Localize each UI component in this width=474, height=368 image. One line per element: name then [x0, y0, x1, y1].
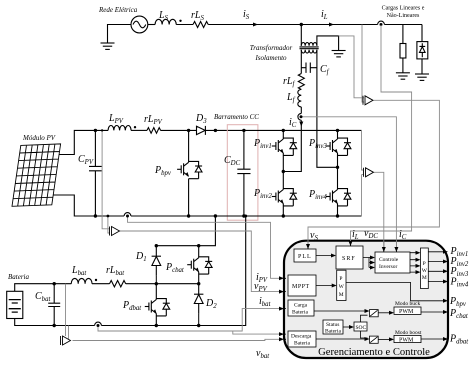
svg-text:Não-Lineares: Não-Lineares: [387, 13, 420, 19]
converter top wire: [156, 216, 215, 246]
wire vS to PLL: [307, 241, 309, 249]
wire vDC tap bottom: [362, 175, 364, 216]
transistor P_inv3: [326, 138, 351, 155]
svg-text:Rede Elétrica: Rede Elétrica: [98, 6, 138, 14]
arrows into mppt/carga/descarga from block edge: [284, 278, 286, 339]
wire selector to pwm buck: [378, 312, 392, 314]
box Status Bateria: [323, 320, 343, 334]
transformer primary: [301, 43, 317, 46]
node P_bpv top: [187, 129, 190, 132]
wire vS tap1: [339, 36, 364, 98]
wire status to SOC: [343, 326, 352, 328]
node Pcbat bottom: [197, 282, 200, 285]
box Descarga Bateria: [288, 331, 316, 347]
box PWM boost: [394, 335, 421, 342]
highlight rect barramento: [227, 125, 258, 221]
wire rLbat to converter: [126, 283, 199, 285]
transistor P_inv1: [272, 138, 297, 155]
svg-text:Bateria: Bateria: [8, 273, 29, 281]
wire vS tap2: [362, 25, 364, 103]
svg-text:Barramento CC: Barramento CC: [214, 113, 259, 121]
wires PWM to Pinv outputs: [428, 252, 446, 282]
transistor P_cbat: [198, 246, 200, 284]
svg-text:Carga: Carga: [294, 303, 308, 309]
wire vPV tap1: [102, 130, 110, 228]
sensor triangle vDC: [364, 168, 374, 177]
secondary right branch: [317, 50, 338, 168]
secondary left branch: [300, 50, 302, 74]
svg-text:Modo boost: Modo boost: [395, 330, 422, 336]
svg-text:Descarga: Descarga: [291, 334, 312, 340]
diode D3: [197, 126, 206, 134]
arrows internal: [306, 244, 310, 249]
box PWM inverter: [421, 248, 429, 289]
wire node to loads: [301, 24, 377, 26]
node D3 out: [214, 129, 217, 132]
top dc rail: [244, 129, 362, 131]
wire Lf to iC sensor: [300, 107, 302, 114]
svg-text:M: M: [339, 292, 344, 298]
ground linear load: [396, 73, 410, 79]
arrow iS: [253, 23, 258, 27]
transformer core: [300, 47, 319, 49]
battery box: [7, 291, 23, 318]
wire iC to controle: [395, 241, 397, 252]
wire selector to pwm boost: [378, 338, 392, 340]
node CDC bottom: [242, 214, 245, 217]
diode D2: [194, 284, 203, 314]
wire vPV tap2: [108, 216, 110, 233]
resistor rLS: [193, 22, 208, 28]
capacitor Cf: [301, 67, 317, 69]
arrow iC down: [299, 122, 303, 127]
svg-text:MPPT: MPPT: [292, 284, 310, 290]
node legA top: [282, 129, 285, 132]
wire down to primary: [300, 25, 302, 46]
svg-text:W: W: [339, 284, 345, 290]
ground transformer: [332, 51, 346, 57]
box PWM buck: [394, 307, 421, 314]
svg-text:Status: Status: [326, 322, 339, 328]
node legB top: [336, 129, 339, 132]
wire vbat tap2: [68, 326, 70, 341]
wire SOC to selector buck: [361, 315, 368, 322]
wire vPV out: [120, 231, 282, 292]
PV module panel: [12, 144, 61, 206]
block Gerenciamento e Controle: [284, 241, 448, 358]
wire PWM to Pbpv out: [346, 282, 446, 300]
inverter leg A top: [282, 130, 284, 139]
wire carga to selector: [314, 310, 368, 312]
svg-text:Módulo PV: Módulo PV: [22, 134, 56, 142]
transistor P_inv4: [326, 189, 351, 206]
inductor LPV: [108, 125, 131, 130]
inductor Lbat: [71, 278, 92, 283]
svg-text:Isolamento: Isolamento: [254, 54, 287, 62]
converter bottom wire riser: [101, 216, 245, 326]
sensor triangle vPV: [110, 227, 120, 236]
wire vDC tap top: [362, 130, 364, 170]
wire iC sensor to leg A midpoint: [283, 120, 301, 171]
svg-text:PWM: PWM: [399, 309, 414, 315]
wire D3 to bus: [205, 129, 244, 131]
svg-text:Transformador: Transformador: [250, 44, 293, 52]
svg-text:SRF: SRF: [342, 256, 356, 262]
wire SOC to selector boost: [361, 331, 368, 338]
PV wires to bus: [59, 130, 108, 154]
wire vbat out: [73, 339, 282, 340]
svg-text:Bateria: Bateria: [325, 329, 341, 335]
inductor Lf: [298, 90, 302, 107]
wire ibat out: [98, 309, 282, 331]
inverter leg B top: [337, 130, 339, 139]
capacitor CPV: [94, 130, 96, 216]
transformer secondary: [301, 50, 317, 53]
resistor rLPV: [147, 128, 161, 134]
arrow iL: [329, 23, 334, 27]
wire pwm boost to Pdbat: [421, 338, 446, 340]
wire pwm buck to Pcbat: [421, 311, 446, 313]
sensor triangle vS: [363, 96, 373, 105]
node CDC top: [242, 129, 245, 132]
wire iL sense: [351, 25, 412, 238]
resistor rLf: [298, 74, 304, 90]
svg-text:Bateria: Bateria: [292, 310, 308, 316]
nonlinear load: [421, 25, 423, 42]
svg-text:M: M: [422, 275, 427, 281]
current sensor ibat hop: [95, 322, 102, 325]
wire to transformer node: [208, 24, 301, 26]
node P_bpv bottom: [187, 214, 190, 217]
ground nonlinear load: [415, 74, 429, 80]
capacitor Cbat: [53, 284, 55, 326]
box selector boost: [370, 336, 379, 343]
svg-text:Modo buck: Modo buck: [395, 301, 420, 307]
wires controle to PWM: [410, 253, 418, 272]
svg-text:Inversor: Inversor: [379, 264, 397, 270]
box MPPT: [288, 275, 316, 296]
wire vbat tap1: [65, 284, 67, 336]
wire vDC out: [374, 172, 384, 238]
wire ac left: [108, 25, 132, 44]
box SRF: [336, 246, 363, 269]
node D2 bottom: [197, 324, 200, 327]
svg-text:PWM: PWM: [399, 338, 414, 344]
node D1 top: [155, 244, 158, 247]
node grid-transformer: [300, 23, 303, 26]
resistor rLbat: [110, 281, 126, 287]
node Pdbat bottom: [155, 324, 158, 327]
wire LPV-rLPV: [131, 129, 147, 131]
iL load sensor hop: [378, 21, 385, 24]
node legB bottom: [336, 214, 339, 217]
svg-text:Cargas Lineares e: Cargas Lineares e: [382, 6, 425, 12]
box Carga Bateria: [288, 300, 314, 316]
transistor P_dbat: [155, 284, 157, 326]
node legA bottom: [282, 214, 285, 217]
transistor P_bpv: [188, 130, 190, 216]
wire MPPT to PWM: [316, 285, 335, 287]
wire vDC to controle: [383, 241, 385, 252]
svg-text:W: W: [422, 268, 428, 274]
dot after Lbat: [95, 279, 97, 281]
dot after LS: [179, 20, 181, 22]
transistor P_inv2: [272, 189, 297, 206]
wire ac right: [148, 24, 155, 26]
linear load R: [402, 25, 404, 44]
current sensor iC hop: [298, 113, 301, 120]
dot after LPV: [134, 126, 136, 128]
wire to D3: [161, 129, 197, 131]
svg-text:SOC: SOC: [356, 325, 367, 331]
diode D1: [152, 246, 161, 276]
selector diagonals: [370, 310, 377, 342]
svg-text:PLL: PLL: [298, 254, 312, 260]
wire SRF to controle: [363, 258, 373, 268]
box PWM mppt: [337, 270, 346, 300]
current sensor iPV hop: [124, 213, 131, 216]
node legA mid: [282, 170, 285, 173]
ac source V grid: [131, 16, 148, 33]
wire iL to SRF: [350, 241, 352, 246]
wire ibat branch to descarga: [233, 331, 282, 334]
node Cbat bottom: [53, 324, 56, 327]
svg-text:Bateria: Bateria: [294, 341, 310, 347]
svg-text:P: P: [423, 261, 426, 267]
wire PLL to SRF: [316, 255, 334, 257]
node PV bottom rail C: [94, 214, 97, 217]
sensor triangle vbat: [61, 336, 71, 345]
node riser bottom rail: [214, 214, 217, 217]
box Controle Inversor: [375, 252, 410, 273]
wire LS-rLS: [176, 24, 193, 26]
bottom dc rail: [95, 215, 362, 217]
node Cbat top: [53, 282, 56, 285]
capacitor CDC: [243, 130, 245, 216]
wire iC out: [303, 117, 397, 238]
gray stubs across border: [308, 238, 396, 247]
box selector buck: [370, 310, 379, 317]
box PLL: [294, 249, 316, 262]
svg-text:P: P: [339, 276, 342, 282]
node PV top rail: [94, 129, 97, 132]
wire iPV out: [128, 217, 282, 279]
node Pcbat top: [197, 244, 200, 247]
inductor LS: [155, 19, 176, 24]
wire descarga to selector: [316, 338, 368, 340]
svg-text:Gerenciamento e Controle: Gerenciamento e Controle: [318, 347, 430, 358]
svg-text:Controle: Controle: [379, 257, 399, 263]
wire vS out: [308, 100, 439, 238]
primary right lead to ground: [317, 36, 339, 51]
node D1 bottom: [155, 282, 158, 285]
wire Lbat-rLbat: [92, 283, 110, 285]
ground grid: [101, 43, 115, 49]
box SOC: [354, 322, 367, 331]
node legB mid: [336, 166, 339, 169]
battery wires: [15, 284, 72, 292]
node battery riser rail: [244, 215, 247, 218]
